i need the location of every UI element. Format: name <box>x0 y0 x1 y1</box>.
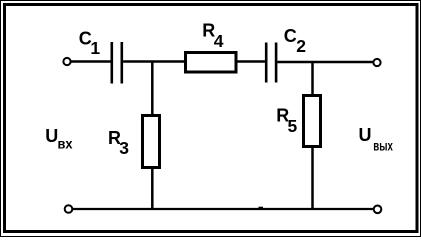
svg-text:2: 2 <box>296 36 306 56</box>
node B: junction top of R5 <box>311 62 314 95</box>
resistor R4 <box>186 53 237 73</box>
svg-text:1: 1 <box>90 38 100 58</box>
svg-text:5: 5 <box>288 116 298 136</box>
label C1 <box>79 29 101 58</box>
label R3 <box>108 128 129 158</box>
wire: C1 to R4 (through node A) <box>123 60 185 62</box>
svg-text:U: U <box>359 125 372 145</box>
label R4 <box>202 21 223 51</box>
label U_in <box>45 126 73 151</box>
wire: bottom ground rail <box>72 208 373 210</box>
wire: R3 bottom to ground rail <box>151 167 154 208</box>
node A: junction top of R3 <box>151 62 154 115</box>
svg-text:C: C <box>284 26 297 46</box>
svg-text:4: 4 <box>214 31 224 51</box>
terminal: output top <box>373 59 380 66</box>
svg-text:U: U <box>45 126 58 146</box>
resistor R5 <box>304 96 321 147</box>
svg-text:3: 3 <box>119 138 129 158</box>
svg-text:вых: вых <box>373 139 393 154</box>
label U_out <box>359 125 394 154</box>
svg-text:вх: вх <box>58 136 73 151</box>
wire: input terminal to C1 <box>71 60 111 62</box>
wire: C2 to output terminal (through node B) <box>277 61 373 63</box>
terminal: output bottom <box>374 206 382 214</box>
capacitor C2 <box>265 43 278 83</box>
capacitor C1 <box>111 42 124 84</box>
terminal: input bottom <box>65 205 73 213</box>
resistor R3 <box>143 116 160 168</box>
wire: R5 bottom to ground rail <box>311 146 314 208</box>
terminal: input top <box>63 58 70 65</box>
label C2 <box>284 26 306 56</box>
wire: R4 to C2 <box>236 60 265 62</box>
label R5 <box>276 106 297 136</box>
node: junction mark on ground rail <box>259 207 264 209</box>
